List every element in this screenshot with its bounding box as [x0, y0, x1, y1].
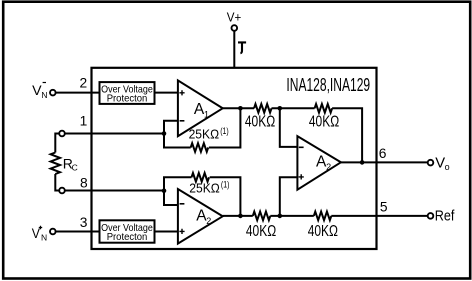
IC outline INA128,INA129 [92, 68, 377, 249]
wire A1 output row [223, 107, 254, 109]
svg-text:40KΩ: 40KΩ [308, 223, 338, 240]
terminal pin 1 [59, 131, 65, 137]
wire between bottom 40k resistors [270, 215, 314, 217]
svg-text:2: 2 [79, 75, 87, 90]
wire pin1 to RG [55, 134, 58, 153]
wire node A to A1 feedback [164, 134, 191, 148]
svg-text:5: 5 [380, 199, 388, 214]
terminal VIN- (pin 2) [32, 83, 56, 100]
wire node B to A2 feedback [164, 177, 192, 190]
svg-text:25KΩ: 25KΩ [189, 181, 220, 196]
node A3 feedback junction [360, 160, 365, 165]
wire 25k A2 to A2 output node [210, 177, 241, 216]
terminal VIN+ (pin 3) [32, 226, 56, 243]
resistor 25k A1 feedback [189, 126, 229, 152]
resistor 40k top second [309, 104, 339, 131]
terminal pin 8 [59, 188, 65, 194]
wire A2 output row [223, 215, 253, 217]
wire OV box to A2 + input [155, 231, 178, 233]
svg-text:2: 2 [326, 162, 331, 172]
svg-text:40KΩ: 40KΩ [245, 114, 275, 131]
wire bottom row to Ref terminal [331, 215, 427, 217]
svg-text:(1): (1) [221, 180, 230, 190]
wire node to A3 inverting input [280, 108, 298, 147]
svg-text:(1): (1) [220, 126, 229, 136]
svg-text:N: N [41, 233, 47, 243]
node A junction on pin1 wire [162, 131, 167, 136]
svg-text:Protecton: Protecton [107, 94, 148, 105]
wire 25k A1 to A1 output node [209, 108, 241, 147]
wire RG to pin 8 [55, 174, 58, 191]
wire OV box to A1 + input [155, 92, 178, 94]
resistor 25k A2 feedback [189, 173, 229, 196]
wire pin1 to node A [65, 133, 164, 135]
op-amp A1 [178, 80, 223, 136]
node bottom row junction [278, 214, 283, 219]
wire 40k to A3 feedback node [332, 108, 362, 162]
resistor 40k top first [245, 104, 275, 131]
op-amp A2 [178, 189, 223, 244]
svg-text:o: o [445, 162, 450, 172]
wire node to A3 non-inverting input [280, 177, 298, 216]
svg-text:C: C [72, 162, 78, 172]
svg-text:Ref: Ref [435, 209, 456, 225]
svg-text:1: 1 [80, 114, 88, 129]
svg-text:25KΩ: 25KΩ [189, 127, 220, 142]
node B junction on pin8 wire [162, 188, 167, 193]
wire pin3 to OV box [56, 231, 99, 233]
terminal V+ (pin 7) [227, 10, 242, 31]
wire A3 output to Vo terminal [341, 161, 427, 163]
node A1 output junction [238, 106, 243, 111]
wire between top 40k resistors [272, 107, 315, 109]
over-voltage protection block (pin 3) [100, 220, 155, 243]
terminal Ref (pin 5) [428, 209, 456, 225]
svg-text:1: 1 [204, 110, 209, 120]
wire pin8 to node B [65, 190, 164, 192]
node A2 output junction [238, 214, 243, 219]
svg-text:Protecton: Protecton [107, 232, 148, 243]
svg-text:6: 6 [379, 146, 387, 161]
svg-text:V+: V+ [227, 10, 242, 25]
resistor RG external [51, 153, 78, 175]
svg-text:40KΩ: 40KΩ [246, 223, 276, 240]
svg-text:N: N [41, 90, 47, 100]
svg-text:8: 8 [80, 175, 88, 190]
op-amp A3 [297, 136, 341, 190]
svg-text:3: 3 [80, 215, 88, 230]
node top row junction [278, 106, 283, 111]
wire node A to A1 inverting input [164, 121, 178, 134]
svg-text:INA128,INA129: INA128,INA129 [286, 75, 370, 95]
wire node B to A2 inverting input [164, 191, 178, 205]
svg-text:2: 2 [206, 216, 211, 226]
svg-text:V: V [32, 226, 41, 242]
svg-text:40KΩ: 40KΩ [309, 114, 339, 131]
wire pin2 to OV box [56, 92, 100, 94]
over-voltage protection block (pin 2) [100, 82, 155, 105]
terminal Vo (pin 6) [428, 156, 450, 172]
resistor 40k bottom second [308, 212, 338, 241]
resistor 40k bottom first [246, 212, 276, 241]
wire V+ to IC top [233, 31, 235, 68]
pin label 7 [238, 42, 246, 53]
